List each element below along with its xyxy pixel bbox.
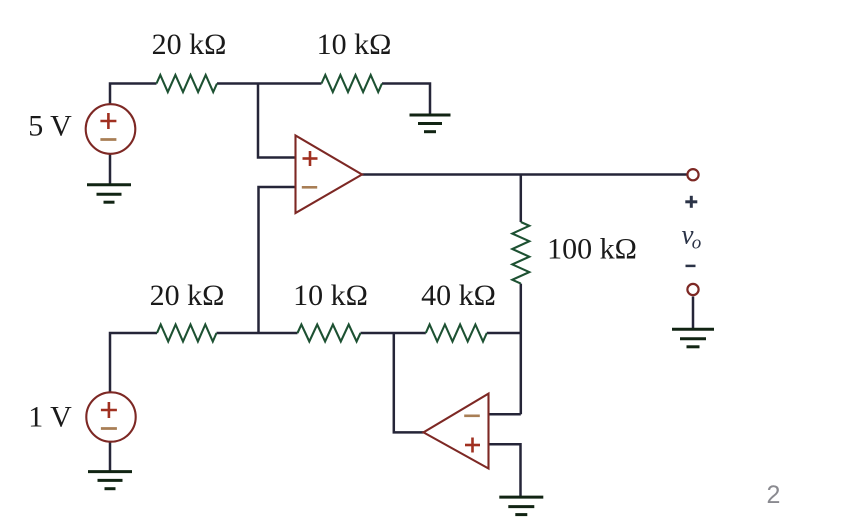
svg-text:o: o <box>692 233 702 254</box>
svg-text:20 kΩ: 20 kΩ <box>150 279 225 312</box>
svg-text:10 kΩ: 10 kΩ <box>293 279 368 312</box>
svg-text:2: 2 <box>767 481 781 509</box>
svg-text:20 kΩ: 20 kΩ <box>152 28 227 61</box>
svg-text:100 kΩ: 100 kΩ <box>547 233 637 266</box>
svg-text:1 V: 1 V <box>28 401 72 434</box>
svg-text:40 kΩ: 40 kΩ <box>421 279 496 312</box>
svg-text:5 V: 5 V <box>28 110 72 143</box>
svg-text:10 kΩ: 10 kΩ <box>317 28 392 61</box>
